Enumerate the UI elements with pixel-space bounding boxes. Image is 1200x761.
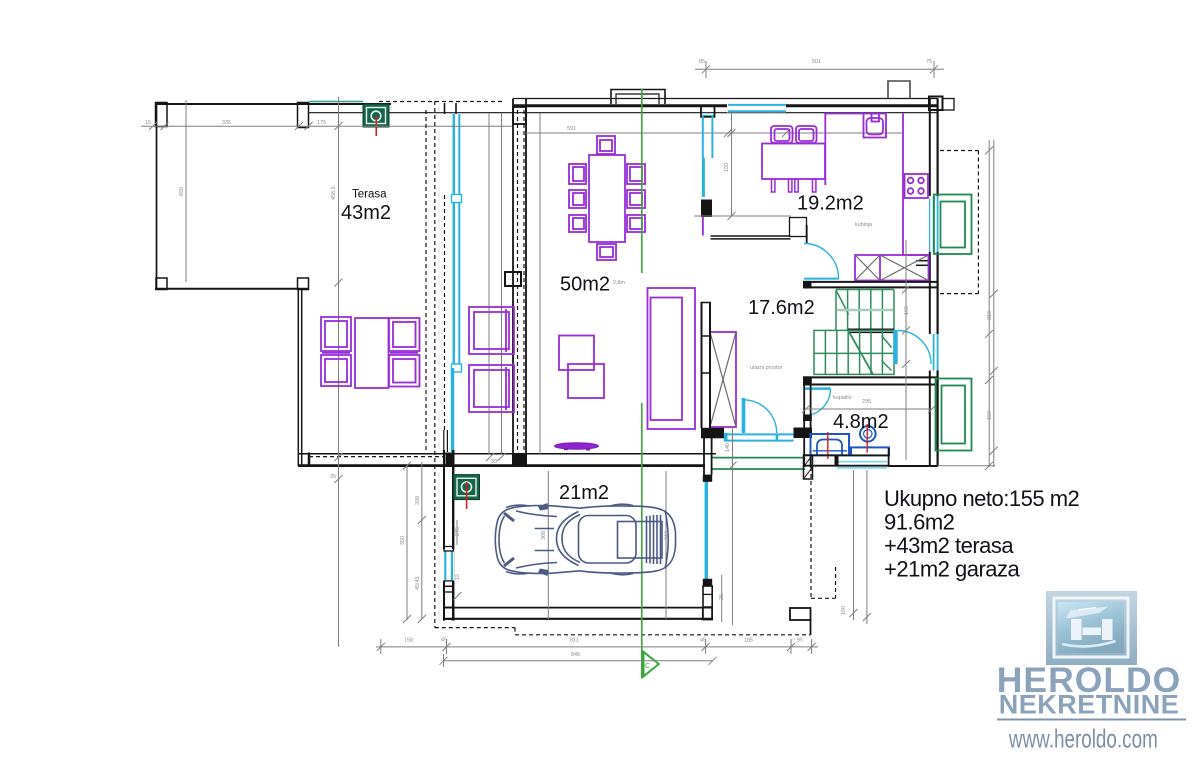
svg-text:175: 175: [317, 120, 326, 126]
kupatilo label: [833, 395, 852, 401]
section line green: [642, 89, 659, 679]
terrace bottom-left post: [156, 278, 167, 290]
svg-text:650: 650: [179, 187, 185, 196]
svg-text:159: 159: [987, 411, 993, 420]
entrance sill: [724, 433, 794, 442]
kitchen counter right: [903, 114, 928, 256]
terrace dim line horizontal: [141, 120, 512, 130]
svg-text:368: 368: [541, 531, 547, 540]
svg-text:25: 25: [719, 594, 725, 600]
bathroom bottom wall: [804, 448, 938, 467]
svg-text:ulazni prostor: ulazni prostor: [750, 365, 783, 371]
kitchen wall window cyan: [702, 115, 713, 158]
coffee table 2: [568, 364, 604, 398]
beam line under top wall: [309, 112, 937, 114]
svg-text:275: 275: [455, 527, 461, 536]
coffee table 1: [559, 336, 594, 371]
svg-text:501: 501: [812, 59, 821, 65]
terrace dim vertical left: [179, 100, 186, 282]
kitchen wall purple segment: [702, 217, 704, 236]
right dimension column: [938, 140, 998, 470]
entrance green threshold: [712, 458, 805, 469]
house left wall: [512, 99, 527, 468]
svg-text:295: 295: [862, 399, 871, 405]
rug ellipse: [555, 443, 599, 450]
svg-text:2,8m: 2,8m: [613, 280, 625, 286]
dining chair bottom: [597, 244, 616, 260]
planter green box 1: [934, 195, 972, 255]
svg-text:350: 350: [400, 536, 406, 545]
top-right corner posts: [929, 97, 954, 111]
glass wall bottom cap: [446, 453, 455, 466]
shower threshold light cyan: [837, 462, 887, 468]
svg-text:Terasa: Terasa: [352, 189, 387, 201]
svg-text:30: 30: [491, 459, 497, 465]
dining chairs right: [627, 164, 645, 232]
car windshield: [557, 512, 581, 566]
svg-text:www.heroldo.com: www.heroldo.com: [1008, 725, 1158, 753]
armchair 1: [469, 307, 514, 354]
stairs dim vertical: [902, 240, 910, 460]
car roof: [579, 516, 663, 564]
terrace left wall: [156, 103, 158, 290]
glass wall single segment: [451, 368, 455, 452]
svg-text:Ukupno neto:155 m2: Ukupno neto:155 m2: [884, 486, 1080, 511]
bottom dim line second: [440, 652, 717, 667]
svg-text:165: 165: [904, 306, 910, 315]
kitchen sink: [864, 114, 887, 138]
svg-text:17.6m2: 17.6m2: [748, 297, 815, 319]
dashed hidden lines left/bottom: [426, 101, 836, 635]
dashed roof edge top: [379, 101, 503, 103]
kitchen-living wall pillar: [701, 106, 715, 117]
entrance wall stub right: [794, 428, 813, 439]
stairs upper flight: [836, 290, 894, 331]
kitchen wall black pillar: [701, 200, 712, 218]
garage left window: [443, 547, 455, 593]
svg-text:kuhinja: kuhinja: [855, 222, 872, 228]
house right wall: [930, 99, 938, 467]
bottom dim line main: [376, 638, 818, 655]
svg-text:50m2: 50m2: [560, 274, 610, 296]
logo icon: [1046, 591, 1137, 665]
svg-text:95: 95: [797, 638, 803, 644]
right wall window 1: [928, 196, 941, 252]
kitchen counter edge left: [825, 113, 863, 185]
entrance door: [742, 398, 777, 433]
svg-text:NEKRETNINE: NEKRETNINE: [999, 690, 1180, 720]
car rear grille: [647, 511, 669, 569]
interior dim line vertical C: [539, 113, 541, 454]
svg-text:85: 85: [699, 59, 705, 65]
svg-text:185: 185: [744, 638, 753, 644]
planter green box 2: [936, 379, 972, 451]
garage bottom wall: [444, 607, 712, 619]
svg-text:43m2: 43m2: [341, 202, 391, 224]
step tab bottom right: [790, 608, 811, 635]
kitchen bar stool 1: [771, 126, 793, 143]
hall left wall band: [701, 302, 711, 428]
terrace bottom wall: [155, 288, 309, 290]
car body outline: [495, 504, 675, 575]
hall gray text: [750, 365, 783, 371]
svg-text:200: 200: [415, 496, 421, 505]
svg-text:313: 313: [987, 311, 993, 320]
kitchen lower wall: [711, 236, 791, 239]
bathroom wall hatch below: [804, 455, 813, 479]
entrance wall stub left: [701, 428, 724, 439]
bathroom door: [804, 389, 831, 416]
doorway jamb: [790, 218, 807, 245]
glass wall top posts: [445, 103, 457, 114]
stairwell top wall: [803, 281, 938, 289]
garage right wall lower: [703, 586, 712, 620]
room labels: [341, 189, 889, 505]
kitchen island table: [762, 144, 825, 193]
svg-text:845: 845: [571, 652, 580, 658]
terrace chairs: [321, 317, 420, 387]
dining table: [589, 155, 625, 242]
svg-text:335: 335: [222, 120, 231, 126]
svg-text:456,5: 456,5: [331, 187, 337, 201]
dashed outline right: [940, 151, 978, 294]
terrace bottom mid post: [298, 278, 309, 290]
svg-text:kupatilo: kupatilo: [833, 395, 852, 401]
stairs landing edge: [848, 329, 894, 332]
bathroom sink: [851, 426, 889, 455]
long dim vertical x338: [331, 97, 343, 647]
house bottom wall: [298, 454, 716, 466]
interior dim line horizontal: [526, 126, 903, 137]
garage right wall upper: [704, 438, 712, 475]
svg-text:91.6m2: 91.6m2: [884, 510, 955, 535]
sofa: [648, 288, 696, 429]
interior dim line vertical A: [488, 113, 490, 454]
short wall right of X-box: [916, 261, 930, 266]
svg-text:15: 15: [455, 574, 461, 580]
terrace table: [355, 318, 389, 388]
svg-text:21m2: 21m2: [559, 482, 609, 504]
svg-text:75: 75: [926, 59, 932, 65]
kitchen door arc: [804, 244, 839, 279]
stair hall door: [893, 330, 931, 364]
terrace wall post top-left: [156, 103, 168, 127]
kitchen stove: [905, 174, 929, 198]
svg-text:35: 35: [330, 474, 336, 480]
stairwell bottom wall: [803, 376, 938, 385]
svg-text:811: 811: [570, 638, 579, 644]
interior dim line vertical B: [501, 113, 503, 454]
bathroom extension dims: [841, 470, 871, 624]
dining chair top: [597, 136, 615, 154]
chimney 2: [888, 81, 910, 99]
terrace wall post mid: [298, 103, 309, 128]
svg-text:45: 45: [441, 638, 447, 644]
kitchen wall cyan single: [702, 158, 705, 197]
closet X-box hall: [710, 332, 736, 427]
dining chairs left: [569, 164, 586, 232]
bathroom dim line: [802, 399, 936, 413]
svg-text:C: C: [645, 663, 650, 670]
stairs handrail: [837, 309, 893, 312]
svg-text:591: 591: [567, 126, 576, 132]
svg-text:45: 45: [700, 638, 706, 644]
terrace top wall: [155, 103, 391, 105]
dim ticks near living room bottom: [330, 453, 506, 483]
svg-text:150: 150: [841, 606, 847, 615]
kitchen bar stool 2: [796, 126, 817, 143]
green utility symbol 2: [454, 475, 480, 509]
column at wall junction: [505, 272, 521, 286]
svg-text:140: 140: [725, 443, 731, 452]
logo wordmark: [997, 660, 1186, 753]
svg-text:15: 15: [145, 120, 151, 126]
svg-text:150: 150: [724, 163, 730, 172]
garage dim verticals: [541, 471, 725, 622]
terrace right wall going down: [298, 288, 309, 466]
garage left dim marks: [454, 520, 462, 600]
right wall window 2: [928, 334, 941, 371]
hall dim vertical: [725, 426, 737, 625]
svg-text:+21m2 garaza: +21m2 garaza: [884, 557, 1021, 582]
glass wall double cyan: [452, 114, 462, 372]
kitchen dim lines: [694, 113, 791, 220]
svg-text:158: 158: [404, 638, 413, 644]
green utility symbol 1: [363, 104, 389, 136]
chimney 1: [611, 90, 665, 105]
toilet axis red: [827, 432, 829, 459]
toilet: [811, 434, 850, 455]
armchair 2: [469, 365, 514, 412]
left dim column garage: [400, 462, 426, 623]
bathroom left wall: [803, 385, 812, 467]
svg-text:4.8m2: 4.8m2: [833, 411, 889, 433]
teal pergola line: [309, 101, 363, 103]
house top wall outer: [513, 98, 938, 100]
top dimension line: [695, 59, 944, 78]
garage door cyan: [703, 475, 712, 587]
house top wall inner: [513, 104, 938, 107]
garage left wall: [444, 430, 453, 621]
summary note text: [884, 486, 1080, 582]
svg-text:+43m2 terasa: +43m2 terasa: [884, 533, 1014, 558]
svg-text:45/45: 45/45: [415, 577, 421, 591]
top window cyan strip: [727, 101, 786, 113]
sink axis red: [866, 424, 868, 453]
svg-text:19.2m2: 19.2m2: [797, 193, 864, 215]
car mirrors: [538, 503, 549, 576]
cabinet X-box kitchen: [855, 255, 929, 281]
stairs lower flights: [814, 330, 894, 374]
